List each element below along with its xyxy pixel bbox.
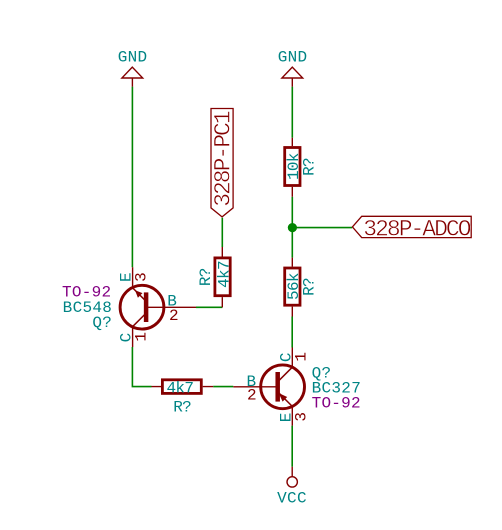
svg-text:2: 2: [247, 387, 256, 405]
svg-text:4k7: 4k7: [167, 379, 194, 397]
svg-text:Q?: Q?: [92, 314, 112, 332]
svg-text:3: 3: [132, 273, 150, 282]
svg-text:R?: R?: [301, 158, 319, 176]
svg-text:1: 1: [293, 352, 311, 361]
svg-text:R?: R?: [197, 268, 215, 286]
svg-text:328P-PC1: 328P-PC1: [210, 111, 236, 207]
svg-text:GND: GND: [278, 49, 308, 67]
svg-text:2: 2: [169, 307, 178, 325]
svg-text:VCC: VCC: [277, 489, 307, 507]
svg-text:R?: R?: [301, 278, 319, 296]
svg-text:1: 1: [133, 332, 151, 341]
svg-text:R?: R?: [173, 398, 191, 416]
svg-text:328P-ADCO: 328P-ADCO: [363, 216, 470, 242]
svg-text:4k7: 4k7: [215, 261, 233, 288]
svg-text:TO-92: TO-92: [312, 395, 361, 413]
svg-text:3: 3: [292, 412, 310, 421]
svg-text:GND: GND: [118, 49, 148, 67]
